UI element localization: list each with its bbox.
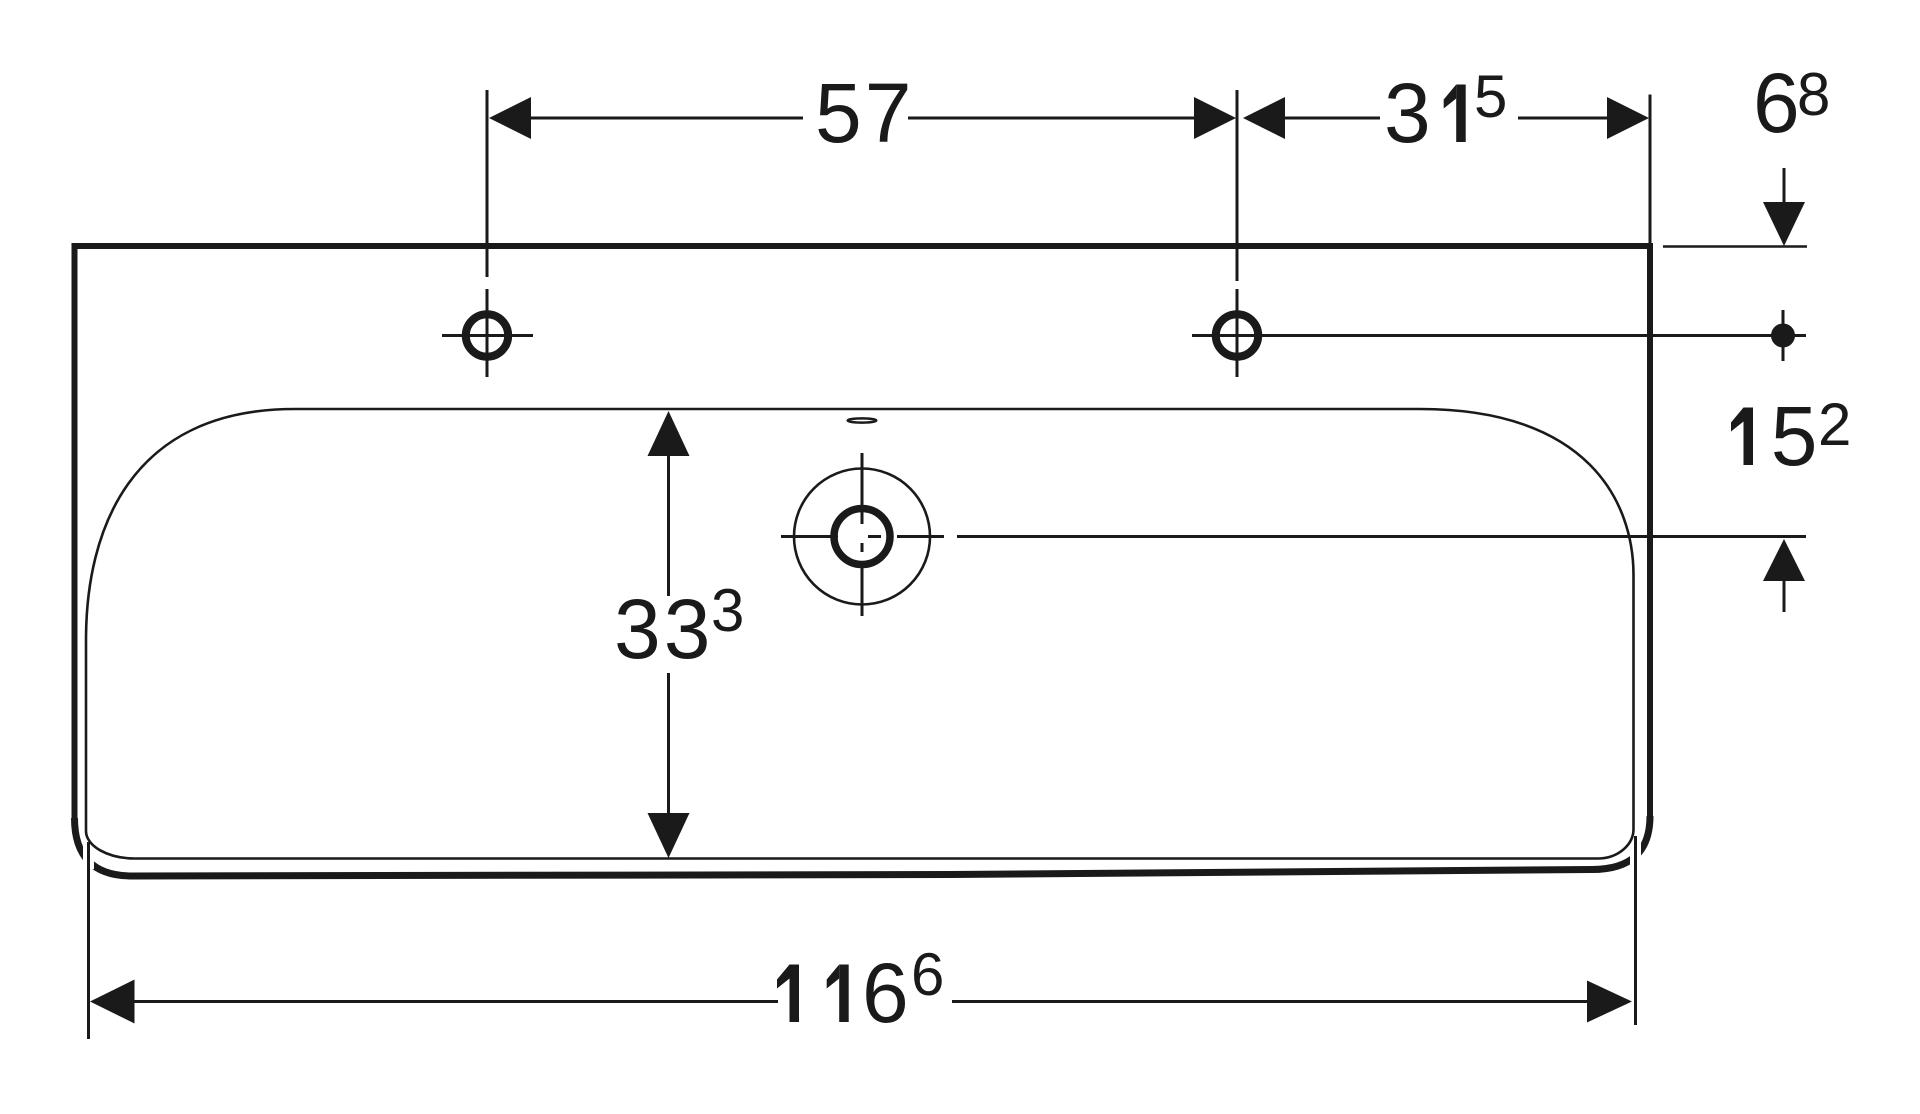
svg-text:8: 8 bbox=[1797, 61, 1830, 128]
faucet center line horizontal bbox=[781, 535, 944, 538]
dimension 57 line bbox=[531, 117, 1194, 120]
dimension 33.3 down arrow bbox=[648, 813, 690, 858]
dimension 116.6 label bbox=[790, 965, 800, 1023]
faucet hole outer circle bbox=[794, 469, 930, 605]
reference dot vertical tick bbox=[1782, 310, 1785, 361]
dimension 57 right arrow bbox=[1194, 97, 1236, 139]
top edge reference line extended right bbox=[1663, 245, 1807, 248]
dimension 116.6 right arrow bbox=[1587, 981, 1632, 1023]
tap hole right crosshair vertical bbox=[1236, 289, 1239, 377]
svg-text:3: 3 bbox=[711, 577, 744, 644]
faucet hole inner circle bbox=[834, 509, 890, 565]
dimension 57 extension line right bbox=[1236, 90, 1239, 281]
dimension 57 extension line left bbox=[486, 90, 489, 277]
dimension 33.3 stem upper bbox=[667, 456, 670, 596]
dimension 116.6 line bbox=[134, 1000, 1587, 1003]
dimension 15.2 up arrow bbox=[1763, 539, 1805, 581]
svg-text:6: 6 bbox=[862, 946, 912, 1040]
washbasin outer rim bbox=[75, 246, 1651, 818]
dimension 15.2 label bbox=[1744, 408, 1754, 466]
dimension 33.3 stem lower bbox=[667, 673, 670, 813]
svg-text:5: 5 bbox=[1771, 389, 1821, 483]
dimension 57 left arrow bbox=[489, 97, 531, 139]
faucet center line vertical bbox=[861, 453, 864, 616]
dimension 6.8 down arrow bbox=[1763, 202, 1805, 246]
svg-text:3: 3 bbox=[1384, 66, 1434, 160]
svg-text:2: 2 bbox=[1818, 391, 1851, 458]
dimension 15.2 stem bbox=[1783, 581, 1786, 612]
svg-text:57: 57 bbox=[815, 66, 914, 160]
washbasin bottom thick edge bbox=[75, 816, 1651, 876]
tap hole left crosshair horizontal bbox=[442, 334, 533, 337]
white gap in rim at right extension line bbox=[1630, 842, 1641, 867]
svg-text:6: 6 bbox=[911, 941, 944, 1008]
dimension 33.3 up arrow bbox=[648, 411, 690, 456]
overflow slot bbox=[848, 418, 877, 422]
svg-text:6: 6 bbox=[1753, 56, 1803, 150]
dimension 116.6 extension line left bbox=[87, 842, 90, 1039]
svg-text:33: 33 bbox=[614, 582, 713, 676]
tap hole right center line to reference dot bbox=[1192, 334, 1806, 337]
faucet center line extended right bbox=[957, 535, 1806, 538]
inner basin outline bbox=[86, 409, 1634, 859]
dimension 31.5 line bbox=[1285, 117, 1607, 120]
dimension 6.8 stem bbox=[1783, 168, 1786, 204]
tap hole left bbox=[466, 314, 508, 356]
reference dot on tap hole line bbox=[1771, 324, 1795, 348]
white gap in rim at left extension line bbox=[83, 845, 94, 869]
dimension 31.5 left arrow bbox=[1243, 97, 1285, 139]
dimension 31.5 extension line right bbox=[1649, 95, 1652, 245]
tap hole right bbox=[1216, 314, 1258, 356]
tap hole left crosshair vertical bbox=[486, 289, 489, 377]
dimension 116.6 left arrow bbox=[90, 980, 135, 1024]
svg-text:5: 5 bbox=[1474, 63, 1507, 130]
dimension 31.5 right arrow bbox=[1607, 97, 1649, 139]
dimension 116.6 extension line right bbox=[1634, 836, 1637, 1025]
